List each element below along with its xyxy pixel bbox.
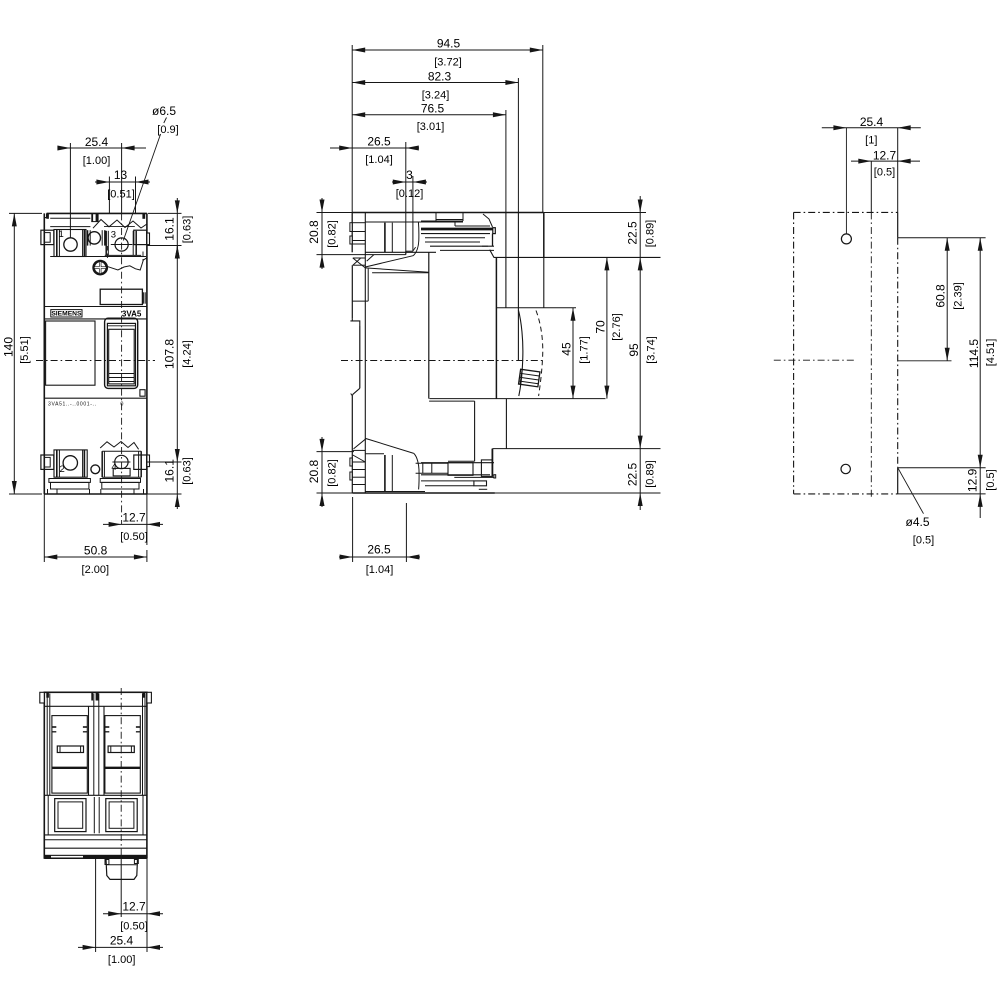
svg-text:82.3: 82.3 (428, 70, 452, 84)
dim 95 [3.74] side view right (638, 436, 643, 449)
svg-text:[0.50]: [0.50] (120, 531, 148, 543)
svg-text:3: 3 (111, 230, 116, 241)
svg-text:3: 3 (406, 168, 413, 182)
dim 12.7 [0.50] bottom view (146, 859, 148, 952)
side view: back inner wall (364, 213, 366, 494)
svg-text:[0.82]: [0.82] (326, 459, 338, 487)
dim 12.9 [0.5] drilling plan lower right (979, 468, 981, 518)
dim 12.7 [0.50] front view bottom (146, 494, 148, 545)
side view: escutcheon right edge (543, 257, 545, 307)
front view: terminal 1 screw circle (64, 238, 77, 251)
svg-text:4: 4 (111, 462, 116, 473)
drilling plan: hole centerline vertical (845, 128, 847, 234)
dim 3 [0.12] side view top (412, 176, 414, 251)
front view: top terminal band lines (50, 217, 90, 219)
svg-text:94.5: 94.5 (437, 37, 461, 51)
svg-text:2: 2 (60, 464, 65, 475)
svg-text:[0.82]: [0.82] (326, 220, 338, 248)
drilling plan: step reference top (898, 237, 986, 239)
side view: lower front wall (505, 399, 507, 449)
svg-text:1: 1 (59, 229, 64, 240)
svg-text:12.7: 12.7 (122, 900, 146, 914)
side view: bottom lug front face (491, 449, 493, 477)
svg-text:16.1: 16.1 (162, 459, 176, 483)
drilling plan: horizontal centerline (774, 359, 855, 361)
side view: inner body front wall (428, 252, 430, 399)
side view: handle travel arc dashed (536, 311, 543, 397)
svg-text:25.4: 25.4 (85, 135, 109, 149)
bottom view: terminal box right (106, 799, 137, 832)
bottom view: inner tick pairs (52, 726, 56, 728)
side view: top lug tip (483, 214, 493, 227)
svg-text:20.8: 20.8 (307, 220, 321, 244)
drilling plan: right edge (897, 212, 899, 237)
svg-text:[5.51]: [5.51] (19, 336, 31, 364)
side view: horizontal centerline (341, 360, 544, 362)
dim 25.4 [1.00] front view top (69, 143, 71, 238)
front view: bottom cutaway break line (100, 442, 138, 450)
dim 94.5 [3.72] side view top (351, 45, 353, 213)
svg-text:60.8: 60.8 (933, 284, 947, 308)
svg-text:13: 13 (114, 168, 128, 182)
front view: terminal 4 inner box (113, 468, 130, 476)
svg-text:[0.63]: [0.63] (182, 457, 194, 485)
bottom view: top corner tabs (40, 692, 45, 703)
front view: cutaway break line bottom (107, 258, 147, 270)
front view: terminal 2 screw circle (63, 456, 77, 470)
svg-text:25.4: 25.4 (110, 933, 134, 947)
front view: breaker outline (43, 213, 45, 494)
side view: top lug stack (436, 219, 463, 221)
front view: escutcheon bottom line (44, 397, 147, 399)
side view: front face (495, 257, 497, 398)
svg-text:[1.04]: [1.04] (365, 154, 393, 166)
front view: terminal 2 block (54, 450, 87, 477)
svg-text:3VA51..-..0001-..: 3VA51..-..0001-.. (48, 402, 96, 408)
side view: front step at 22.5 (494, 256, 661, 258)
front view: label band (44, 306, 147, 308)
svg-text:114.5: 114.5 (967, 339, 981, 368)
svg-text:[4.51]: [4.51] (985, 339, 997, 367)
svg-text:[3.24]: [3.24] (422, 89, 450, 101)
front view: terminal 1 block (54, 230, 86, 257)
dim 20.8 [0.82] side view upper left (317, 212, 353, 214)
side view: escutcheon collar lines (505, 213, 507, 308)
svg-text:[1.00]: [1.00] (83, 155, 111, 167)
front view: philips screw (94, 261, 107, 274)
svg-text:[0.89]: [0.89] (645, 460, 657, 488)
front view: right clamp box bottom (134, 455, 147, 469)
svg-text:95: 95 (627, 343, 641, 357)
dim 22.5 [0.89] side view upper right (544, 212, 646, 214)
svg-text:12.7: 12.7 (873, 149, 897, 163)
front view: test button square (140, 390, 145, 397)
svg-text:16.1: 16.1 (162, 217, 176, 241)
side view: top terminal funnel (365, 256, 413, 267)
svg-text:[1.04]: [1.04] (366, 564, 394, 576)
svg-text:[3.01]: [3.01] (417, 121, 445, 133)
front view: toggle handle (105, 318, 138, 388)
side view: top edge (352, 212, 544, 214)
bottom view: centerline (120, 688, 122, 860)
front view: mounting hole bottom (115, 455, 128, 468)
svg-text:20.8: 20.8 (307, 459, 321, 483)
svg-text:12.7: 12.7 (122, 510, 146, 524)
side view: bottom step reference (492, 448, 660, 450)
front view: left side clamp box (41, 230, 54, 244)
svg-text:26.5: 26.5 (367, 543, 391, 557)
side view: handle solid edge (518, 310, 522, 396)
dim 76.5 [3.01] side view top (505, 110, 507, 213)
svg-text:[0.5]: [0.5] (913, 534, 934, 546)
bottom view: top edge tabs (46, 692, 49, 697)
dim 16.1 [0.63] front view upper right (148, 212, 182, 214)
bottom view: pole inner boxes (52, 716, 87, 794)
svg-text:[1]: [1] (865, 134, 877, 146)
bottom view: side walls lower (47, 795, 49, 835)
bottom view: base lines (44, 834, 147, 836)
dim 70 [2.76] side view right (606, 257, 608, 398)
side view: lower front step (429, 400, 475, 402)
side view: front lug face (543, 213, 545, 258)
dim 22.5 [0.89] side view lower right (638, 493, 643, 506)
svg-text:[3.72]: [3.72] (434, 56, 462, 68)
dim 20.8 [0.82] side view lower left (317, 451, 355, 453)
bottom view: terminal shelf line (44, 794, 147, 796)
bottom view: DIN foot (106, 859, 138, 879)
front view: middle screw ring (88, 232, 100, 244)
svg-text:[0.89]: [0.89] (645, 220, 657, 248)
svg-text:12.9: 12.9 (966, 468, 980, 492)
svg-text:70: 70 (594, 320, 608, 334)
front view: cutaway hidden dashes (106, 246, 108, 259)
svg-text:ø4.5: ø4.5 (905, 515, 929, 529)
front view: SIEMENS logo (51, 310, 82, 317)
side view: handle knob (519, 369, 540, 387)
side view: bottom funnel (354, 439, 414, 454)
svg-text:45: 45 (560, 342, 574, 356)
bottom view: top band line (44, 705, 147, 707)
dim 25.4 [1.00] bottom view (95, 859, 97, 952)
side view: bottom block lines (365, 491, 425, 493)
svg-text:ø6.5: ø6.5 (152, 104, 176, 118)
svg-text:[0.50]: [0.50] (120, 920, 148, 932)
side view: DIN rail notch top (350, 321, 359, 326)
front view: rating label (46, 321, 95, 385)
front view: mounting hole o6.5 in cutaway (115, 238, 128, 251)
front view: right side clamp box (134, 230, 147, 244)
svg-text:22.5: 22.5 (625, 462, 639, 486)
dim 50.8 [2.00] front view bottom (43, 494, 45, 562)
drilling plan: vertical centerline (870, 161, 872, 212)
dim 45 [1.77] side view right (572, 308, 574, 399)
side view: terminal block top lines (365, 221, 463, 223)
dim 16.1 [0.63] front view lower right (147, 461, 182, 463)
dim 140 [5.51] left of front view (9, 212, 42, 214)
side view: bottom terminal clamp lines (384, 455, 386, 492)
side view: top terminal clamp lines (384, 223, 386, 253)
svg-text:[1.00]: [1.00] (108, 954, 136, 966)
svg-text:140: 140 (1, 337, 15, 357)
front view: middle ring bottom (91, 465, 100, 474)
svg-text:[0.5]: [0.5] (985, 469, 997, 490)
dim 26.5 [1.04] side view top (405, 142, 407, 255)
svg-text:[4.24]: [4.24] (182, 340, 194, 368)
dim 107.8 [4.24] front view right (176, 246, 178, 463)
front view: top edge mounting tabs (46, 213, 49, 218)
bottom view: pole walls (46, 694, 48, 796)
svg-text:[2.76]: [2.76] (611, 313, 623, 341)
bottom view: outline (44, 692, 147, 858)
front view: left clamp box bottom (41, 455, 54, 469)
bottom view: middle divider (93, 797, 95, 833)
svg-text:[0.63]: [0.63] (182, 216, 194, 244)
dim 12.7 [0.5] drilling plan top (851, 160, 920, 162)
side view: 45 reference line (497, 307, 576, 309)
bottom view: thick shelf lines (52, 767, 87, 769)
svg-text:[2.00]: [2.00] (82, 564, 110, 576)
svg-text:107.8: 107.8 (162, 339, 176, 369)
dim 13 [0.51] front view top (108, 177, 110, 214)
side view: DIN rail notch bottom (352, 388, 360, 395)
bottom view: terminal box left (55, 799, 86, 832)
drilling plan: mounting hole top (841, 234, 851, 244)
svg-text:[1.77]: [1.77] (578, 336, 590, 364)
dim 26.5 [1.04] side view bottom (352, 497, 354, 562)
front view: cutaway break line top (93, 220, 147, 229)
side view: bottom lug stack (421, 462, 494, 464)
drilling plan: step reference bottom (898, 467, 986, 469)
side view: back edge middle (351, 265, 353, 319)
svg-text:50.8: 50.8 (84, 544, 108, 558)
svg-text:[0.5]: [0.5] (874, 166, 895, 178)
svg-text:[2.39]: [2.39] (953, 282, 965, 310)
side view: bottom edge (352, 492, 495, 494)
bottom view: pole slots (57, 746, 83, 753)
side view: bottom lug box (448, 463, 473, 476)
front view: terminal 4 block (101, 451, 103, 477)
front view: bottom feet bands (49, 479, 91, 483)
svg-text:[0.12]: [0.12] (396, 188, 424, 200)
dim 60.8 [2.39] drilling plan right (946, 238, 948, 361)
svg-text:[0.51]: [0.51] (107, 188, 135, 200)
drilling plan: mounting hole bottom (841, 464, 850, 473)
dim o4.5 [0.5] hole callout (898, 468, 924, 514)
svg-text:25.4: 25.4 (860, 115, 884, 129)
bottom view: base thick edge (44, 855, 147, 859)
dim 82.3 [3.24] side view top (517, 78, 519, 213)
svg-text:[3.74]: [3.74] (646, 336, 658, 364)
front view: terminal 3 block (cutaway) (105, 231, 107, 256)
dim 25.4 [1] drilling plan top (897, 128, 899, 213)
dim 114.5 [4.51] drilling plan right (979, 238, 981, 468)
svg-text:22.5: 22.5 (625, 221, 639, 245)
side view: back channel boxes (353, 257, 366, 259)
svg-text:3VA5: 3VA5 (122, 309, 142, 318)
svg-text:76.5: 76.5 (421, 102, 445, 116)
svg-text:26.5: 26.5 (367, 135, 391, 149)
side view: back edge between notches (359, 326, 361, 388)
side view: back edge upper (351, 213, 353, 253)
side view: back edge lower (351, 396, 353, 493)
drilling plan: breaker outline phantom (793, 212, 795, 494)
front view: accessory window (100, 289, 142, 304)
side view: 70 reference line (430, 398, 606, 400)
front view: horizontal centerline (36, 360, 155, 362)
front view: pole centerline (121, 143, 123, 213)
svg-text:SIEMENS: SIEMENS (51, 311, 82, 318)
